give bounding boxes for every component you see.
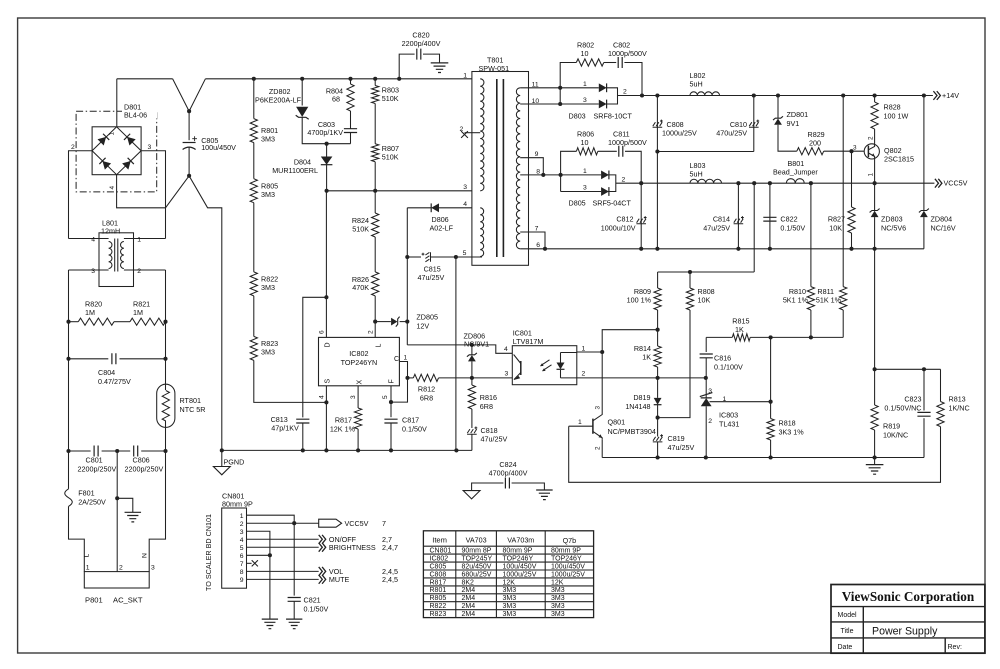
svg-text:ViewSonic Corporation: ViewSonic Corporation: [842, 589, 975, 604]
wire C810 branch: [753, 96, 755, 152]
label R819: [883, 422, 908, 440]
svg-text:C805: C805: [430, 563, 447, 570]
svg-text:1000u/10V: 1000u/10V: [601, 223, 636, 232]
svg-text:TL431: TL431: [719, 419, 739, 428]
wire pin3 node to R824: [374, 191, 376, 213]
wire R814 bottom lead: [657, 367, 659, 378]
svg-text:1: 1: [86, 564, 90, 571]
transformer T801 SPW-051 box: [472, 72, 529, 266]
capacitor C817 0.1/50V: [384, 419, 397, 423]
svg-text:NC/16V: NC/16V: [931, 223, 956, 232]
wire C823 branch: [923, 369, 925, 410]
svg-text:Title: Title: [841, 628, 854, 635]
svg-text:3M3: 3M3: [261, 283, 275, 292]
wire R803-R807: [374, 104, 376, 144]
wire C801-C806 middle: [102, 450, 131, 452]
earth ground below pin3 line: [262, 619, 278, 629]
wire ZD803 bottom lead: [874, 217, 876, 249]
wire R818 bottom lead: [770, 440, 772, 458]
wire R812 to IC801 pin3: [439, 377, 513, 379]
label ZD801: [787, 110, 809, 128]
node C815 left: [405, 255, 409, 259]
capacitor C811 1000p/500V: [619, 146, 623, 157]
node F jog: [389, 400, 393, 404]
svg-text:3M3: 3M3: [503, 595, 517, 602]
node C823 top: [922, 367, 926, 371]
wire ZD806 lead: [471, 361, 473, 378]
node D804/pin3: [325, 189, 329, 193]
svg-text:R823: R823: [430, 611, 447, 618]
wire CN801 pin2 to VCC5V flag: [247, 522, 319, 524]
junctions C804 line: [66, 357, 167, 361]
label R813: [949, 394, 970, 412]
wire F801 bottom lead: [69, 506, 85, 571]
wire CN801 pin7 stub: [247, 562, 252, 564]
svg-text:TO SCALER BD CN101: TO SCALER BD CN101: [204, 514, 213, 591]
svg-text:C821: C821: [304, 595, 321, 604]
svg-text:0.47/275V: 0.47/275V: [98, 377, 131, 386]
label C801: [78, 456, 117, 474]
pin labels IC803: [708, 388, 726, 425]
svg-text:47p/1KV: 47p/1KV: [271, 423, 299, 432]
wire transformer pin3 line: [327, 190, 472, 192]
wire T801 pin2 tap: [465, 132, 481, 134]
label C818: [481, 426, 508, 444]
svg-text:R817: R817: [430, 579, 447, 586]
wire C805- to bridge minus path: [166, 176, 222, 451]
wire D804 top lead: [326, 144, 328, 157]
svg-text:C: C: [394, 356, 399, 363]
svg-text:2,4,7: 2,4,7: [382, 543, 398, 552]
wire bias node vertical: [406, 208, 408, 345]
wire R810 bottom lead: [810, 310, 812, 337]
svg-text:3: 3: [151, 564, 155, 571]
label C811: [608, 130, 647, 147]
svg-text:+14V: +14V: [942, 91, 959, 100]
svg-text:1000p/500V: 1000p/500V: [608, 138, 647, 147]
wire N line into socket: [149, 451, 165, 572]
svg-text:Model: Model: [838, 612, 858, 619]
IC801 LED: [557, 353, 577, 378]
wire D805 output bracket: [608, 175, 616, 192]
svg-text:R801: R801: [430, 587, 447, 594]
resistor R807 510K: [372, 144, 379, 162]
svg-text:R805: R805: [430, 595, 447, 602]
node ZD806 bottom/R816: [470, 376, 474, 380]
svg-text:47u/25V: 47u/25V: [481, 435, 508, 444]
svg-text:SPW-051: SPW-051: [479, 64, 510, 73]
resistor R819 10K/NC: [871, 405, 878, 430]
label R811: [816, 287, 842, 305]
label L801: [101, 218, 120, 235]
wire C803 bottom lead: [350, 133, 352, 144]
svg-text:IC803: IC803: [719, 410, 738, 419]
label R815: [732, 316, 749, 334]
resistor R801 3M3: [250, 119, 257, 143]
svg-text:R817: R817: [335, 415, 352, 424]
node pin9/pin8: [541, 173, 545, 177]
svg-text:1M: 1M: [85, 308, 95, 317]
resistor R827 10K: [848, 207, 855, 233]
net arrow MUTE: [319, 575, 326, 584]
zener diode ZD806 NC/9V1: [467, 353, 477, 357]
label D806: [430, 215, 454, 233]
pin labels D805: [583, 168, 626, 192]
svg-text:6R8: 6R8: [480, 402, 493, 411]
T801 primary winding: [480, 79, 484, 191]
svg-text:5: 5: [240, 545, 244, 552]
svg-text:1000u/25V: 1000u/25V: [551, 571, 585, 578]
label ZD805: [416, 313, 438, 331]
svg-text:8: 8: [536, 168, 540, 175]
svg-text:10: 10: [581, 49, 589, 58]
label R816: [480, 393, 497, 411]
earth ground below C821: [286, 619, 302, 629]
svg-text:PGND: PGND: [224, 457, 245, 466]
label VOL: [329, 567, 398, 576]
svg-text:4: 4: [91, 236, 95, 243]
wire PGND stub: [221, 450, 223, 466]
label D819: [625, 393, 650, 411]
label C806: [125, 456, 164, 474]
chassis ground (secondary): [866, 465, 884, 475]
svg-text:RT801: RT801: [180, 396, 201, 405]
svg-text:LTV817M: LTV817M: [513, 337, 544, 346]
svg-text:5K1 1%: 5K1 1%: [783, 296, 809, 305]
IC801 phototransistor: [514, 355, 521, 381]
label IC801: [513, 329, 544, 346]
label ZD806: [464, 331, 490, 348]
capacitor C806 2200p/250V: [134, 446, 138, 457]
svg-text:BRIGHTNESS: BRIGHTNESS: [329, 543, 376, 552]
pin labels T801 left: [460, 72, 468, 257]
svg-text:L: L: [83, 554, 90, 558]
resistor R811 51K 1%: [840, 287, 847, 310]
zener diode ZD805 12V: [396, 317, 400, 327]
svg-text:3: 3: [350, 395, 357, 399]
node R809/R814/pin1: [656, 328, 660, 332]
svg-text:12K 1%: 12K 1%: [330, 425, 356, 434]
svg-text:1000p/500V: 1000p/500V: [608, 49, 647, 58]
wire R811 riser: [842, 96, 844, 287]
wire ZD805 anode lead: [375, 321, 391, 323]
svg-text:1K/NC: 1K/NC: [949, 403, 970, 412]
svg-text:1: 1: [404, 354, 408, 361]
pin numbers CN801: [240, 513, 244, 584]
svg-text:100u/450V: 100u/450V: [503, 563, 537, 570]
svg-text:C819: C819: [668, 434, 685, 443]
wire T801 pin11 lead: [520, 87, 599, 89]
wire R814 top lead: [657, 330, 659, 346]
wire R801-R805: [253, 143, 255, 179]
wire C804 left lead: [69, 358, 109, 360]
wire R807 to pin3 node: [374, 162, 376, 191]
svg-text:7: 7: [240, 561, 244, 568]
wire P801 pin2: [116, 571, 118, 573]
net arrow BRIGHTNESS: [319, 543, 326, 552]
svg-text:510K: 510K: [382, 94, 399, 103]
svg-text:3: 3: [148, 144, 152, 151]
no-connect X at CN801 pin7: [252, 560, 258, 566]
svg-text:0.1/50V/NC: 0.1/50V/NC: [884, 403, 921, 412]
dash-dot box around D801: [76, 111, 157, 192]
svg-text:80mm 9P: 80mm 9P: [222, 500, 253, 509]
net flag VCC5V: [319, 519, 342, 527]
resistor R820 1M: [78, 318, 114, 325]
variant table data: [430, 548, 586, 618]
L801 right winding: [121, 242, 124, 269]
shunt regulator IC803 TL431: [700, 393, 713, 407]
junctions C801/C806 line: [66, 449, 167, 453]
resistor R826 470K: [372, 272, 379, 296]
wire L801 pin4 lead: [69, 238, 100, 240]
svg-text:470K: 470K: [352, 283, 369, 292]
wire CN801 pin3: [247, 531, 270, 618]
wire primary HV+ rail left segment: [117, 78, 173, 80]
capacitor C810 470u/25V (polarized): [749, 120, 759, 128]
svg-text:3: 3: [595, 406, 602, 410]
chassis ground at C824: [536, 490, 553, 500]
wire snubber riser D803: [560, 63, 576, 105]
label ZD802: [255, 87, 302, 104]
wire L801 pin3 lead: [69, 269, 100, 271]
svg-text:4: 4: [240, 537, 244, 544]
svg-text:3M3: 3M3: [261, 135, 275, 144]
pin labels P801: [83, 553, 155, 571]
capacitor C820 2200p/400V: [417, 49, 421, 60]
label ZD804: [931, 214, 956, 232]
wire IC802 pin D (6) vertical: [325, 191, 327, 338]
svg-text:3: 3: [240, 529, 244, 536]
svg-text:F801: F801: [78, 489, 94, 498]
variant table grid: [423, 531, 593, 618]
wire bridge diamond: [92, 127, 141, 175]
wire +14V rail: [618, 95, 933, 97]
resistor R802 10: [576, 59, 604, 66]
wire bridge pin4 minus lead: [117, 175, 166, 208]
svg-text:2: 2: [622, 176, 626, 183]
label ON/OFF: [329, 535, 392, 544]
svg-text:3: 3: [583, 185, 587, 192]
svg-text:2SC1815: 2SC1815: [884, 155, 914, 164]
label F801: [78, 489, 106, 507]
diode D803-b SRF8-10CT: [599, 100, 607, 109]
svg-text:D805: D805: [569, 199, 586, 208]
svg-text:C814: C814: [713, 214, 730, 223]
wire pull-up riser to VCC5V: [753, 183, 755, 272]
svg-text:3: 3: [91, 268, 95, 275]
svg-text:4700p/1KV: 4700p/1KV: [307, 128, 343, 137]
label C822: [780, 214, 805, 232]
wire C805 negative lead: [188, 147, 190, 176]
wire IC801 pin2 line: [577, 377, 706, 379]
junction dots +14V rail: [640, 93, 926, 97]
label ZD803: [881, 214, 906, 232]
svg-text:1000u/25V: 1000u/25V: [662, 128, 697, 137]
svg-text:R819: R819: [883, 422, 900, 431]
svg-text:510K: 510K: [352, 224, 369, 233]
wire NC top node line: [875, 368, 941, 370]
svg-text:C817: C817: [402, 415, 419, 424]
svg-text:3: 3: [463, 184, 467, 191]
wire D804 cathode to pin3 line: [326, 165, 328, 191]
wire T801 pin8 lead: [520, 174, 601, 176]
svg-text:A02-LF: A02-LF: [430, 224, 454, 233]
svg-text:100 1%: 100 1%: [627, 296, 652, 305]
svg-text:D819: D819: [633, 393, 650, 402]
wire R811 bottom lead: [842, 310, 844, 337]
wire IC802 pin S (4) to PGND: [325, 386, 327, 451]
svg-text:2: 2: [582, 370, 586, 377]
label C815: [418, 265, 445, 283]
resistor R828 100 1W: [871, 102, 878, 129]
svg-text:3M3: 3M3: [261, 348, 275, 357]
svg-text:2: 2: [708, 418, 712, 425]
wire D806 line: [407, 207, 431, 209]
svg-text:200: 200: [809, 138, 821, 147]
svg-text:100u/450V: 100u/450V: [201, 143, 236, 152]
svg-text:0.1/50V: 0.1/50V: [304, 604, 329, 613]
inductor L801 12mH box: [99, 233, 134, 287]
wire HV rail dip into C805+ node: [173, 79, 206, 111]
svg-text:2: 2: [595, 446, 602, 450]
wire C806 right lead: [141, 450, 165, 452]
label R826: [352, 275, 369, 292]
capacitor C822 0.1/50V: [763, 217, 776, 221]
svg-text:3M3: 3M3: [551, 595, 565, 602]
svg-text:3M3: 3M3: [503, 603, 517, 610]
label R824: [352, 216, 369, 233]
wire neutral-mid vertical: [116, 451, 118, 572]
label L803: [690, 161, 706, 179]
svg-text:2200p/400V: 2200p/400V: [402, 39, 441, 48]
wire C815 left lead: [407, 256, 421, 258]
label C823: [884, 394, 921, 412]
wire C813 bottom lead: [302, 423, 304, 450]
capacitor C804 0.47/275V: [112, 353, 116, 364]
pin labels Q801: [578, 406, 602, 451]
wire C814 branch: [737, 183, 739, 249]
capacitor C818 47u/25V (polarized): [467, 427, 477, 435]
wire R815 line: [706, 336, 732, 338]
label IC803: [719, 410, 739, 428]
svg-text:3M3: 3M3: [551, 587, 565, 594]
wire C819 bottom lead: [657, 442, 659, 458]
svg-text:Bead_Jumper: Bead_Jumper: [773, 168, 818, 177]
svg-text:X: X: [357, 380, 364, 385]
ferrite bead B801 Bead_Jumper: [786, 179, 804, 184]
wire R820 left lead: [69, 321, 79, 323]
wire T801 pin10 lead: [520, 103, 599, 105]
diode D801-c (lower-left arm): [99, 158, 111, 170]
svg-text:10K: 10K: [829, 223, 842, 232]
label C812: [601, 214, 636, 232]
svg-text:1: 1: [868, 173, 875, 177]
svg-text:5uH: 5uH: [690, 80, 703, 89]
wire control ground rail: [602, 457, 924, 459]
label R818: [779, 418, 805, 436]
wire CN801 pin1: [247, 515, 295, 523]
wire NC network vertical: [874, 249, 876, 405]
svg-text:3K3 1%: 3K3 1%: [779, 427, 805, 436]
junction dots VCC5V rail: [639, 181, 876, 185]
svg-text:10K: 10K: [698, 296, 711, 305]
wire C801 left lead: [69, 450, 91, 452]
wire D819 top lead: [657, 378, 659, 398]
label R808: [698, 287, 715, 305]
svg-text:R813: R813: [949, 394, 966, 403]
label R820: [85, 300, 102, 318]
svg-text:6: 6: [536, 242, 540, 249]
svg-text:1: 1: [583, 168, 587, 175]
svg-text:2: 2: [367, 330, 374, 334]
svg-text:MUR1100ERL: MUR1100ERL: [272, 166, 318, 175]
label Q802: [884, 146, 914, 164]
wire R816 top lead: [471, 378, 473, 385]
svg-text:4: 4: [109, 186, 116, 190]
diode D803-a SRF8-10CT: [599, 83, 607, 92]
svg-text:470u/25V: 470u/25V: [716, 128, 747, 137]
svg-text:4700p/400V: 4700p/400V: [489, 469, 528, 478]
zener diode ZD801 9V1: [773, 116, 783, 120]
wire D803 output bracket: [606, 88, 618, 104]
label R829: [808, 130, 825, 148]
node Q802 base/R827: [849, 149, 853, 153]
label VCC5V out: [345, 519, 387, 528]
svg-text:TOP246Y: TOP246Y: [551, 556, 582, 563]
diode D805-b SRF5-04CT: [601, 187, 609, 196]
wire R804 top lead: [350, 79, 352, 84]
resistor R816 6R8: [468, 385, 475, 409]
svg-text:10: 10: [581, 138, 589, 147]
svg-text:5: 5: [463, 250, 467, 257]
label C821: [304, 595, 329, 613]
wire R801 top lead: [253, 79, 255, 119]
label MUTE: [329, 575, 398, 584]
label C803: [307, 120, 343, 137]
wire R818 top lead: [770, 402, 772, 419]
label D801: [122, 103, 157, 120]
junction dots PGND rail: [220, 448, 459, 452]
resistor R814 1K: [654, 346, 661, 367]
wire C804 right lead: [120, 358, 166, 360]
junction dots divider node: [769, 335, 813, 339]
svg-text:AC_SKT: AC_SKT: [113, 596, 143, 605]
L801 left winding: [109, 242, 112, 269]
svg-text:1: 1: [137, 236, 141, 243]
resistor R818 3K3 1%: [767, 419, 774, 441]
svg-text:0.1/50V: 0.1/50V: [780, 223, 805, 232]
svg-text:Q801: Q801: [608, 417, 626, 426]
svg-text:TOP246Y: TOP246Y: [503, 556, 534, 563]
svg-text:2,4,5: 2,4,5: [382, 575, 398, 584]
svg-text:1: 1: [240, 513, 244, 520]
label R803: [382, 86, 399, 103]
node Q801 collector tap: [600, 350, 604, 354]
capacitor C813 47p/1KV: [296, 419, 309, 423]
wire C820 to earth: [423, 54, 440, 63]
svg-text:1000u/25V: 1000u/25V: [503, 571, 537, 578]
label R804: [326, 86, 343, 103]
wire R812 left stub: [408, 377, 414, 379]
svg-text:C804: C804: [98, 368, 115, 377]
wire Q801 collector: [601, 352, 603, 413]
svg-text:3: 3: [708, 388, 712, 395]
wire R827 branch top: [851, 151, 853, 207]
svg-text:ZD804: ZD804: [931, 214, 953, 223]
svg-text:L: L: [376, 344, 383, 348]
svg-text:1M: 1M: [133, 308, 143, 317]
